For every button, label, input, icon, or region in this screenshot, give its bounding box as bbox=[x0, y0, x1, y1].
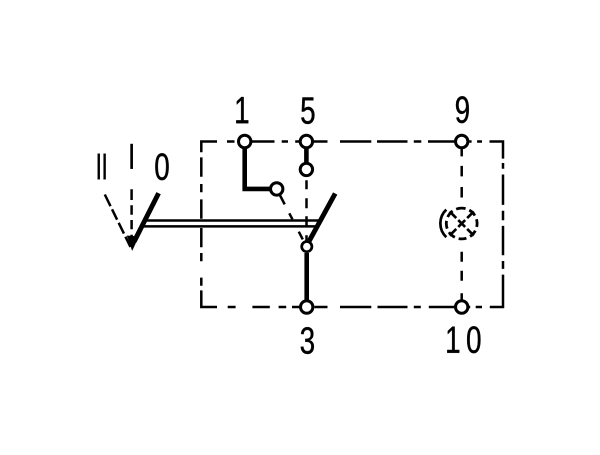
terminal 9 bbox=[456, 135, 468, 147]
enclosure top-right corner bbox=[469, 140, 482, 143]
wire pivot C to terminal 3 bbox=[304, 253, 309, 301]
label 10 digit 0 bbox=[467, 326, 480, 353]
lamp X stroke 1 bbox=[450, 211, 474, 235]
enclosure left edge bbox=[200, 157, 203, 285]
label position II bar 1 bbox=[98, 154, 100, 180]
lamp left arc bbox=[440, 210, 446, 238]
label position II bar 2 bbox=[104, 154, 106, 180]
terminal 10 bbox=[456, 301, 468, 313]
mechanical coupling bar upper line bbox=[146, 219, 319, 222]
wire dashed contact B down to pivot bbox=[280, 196, 303, 241]
wire terminal1 to contact B bbox=[245, 146, 271, 189]
lever arrowhead bbox=[127, 236, 139, 251]
lamp L (illumination) dashed circle bbox=[446, 208, 477, 239]
label 10 digit 1 bbox=[447, 327, 459, 353]
terminal 5 bbox=[300, 135, 312, 147]
switch lever left (position 0) bbox=[134, 193, 158, 241]
switch lever right (movable contact) bbox=[309, 194, 335, 241]
label 9 bbox=[456, 96, 469, 123]
terminal 3 bbox=[301, 301, 313, 313]
wire terminal5 to contact A bbox=[304, 146, 309, 164]
terminal 1 bbox=[239, 135, 251, 147]
enclosure right edge bbox=[502, 163, 505, 275]
enclosure bottom-left corner bbox=[201, 290, 217, 307]
contact node A bbox=[300, 163, 312, 175]
label 3 bbox=[301, 327, 314, 354]
label position I bbox=[131, 144, 133, 169]
position guide dashed I bbox=[130, 189, 133, 244]
label 1 bbox=[236, 97, 248, 123]
wire dashed contact A down to pivot bbox=[305, 180, 308, 240]
wire top edge terminal5 to terminal9 bbox=[314, 140, 454, 143]
enclosure bottom edge corner to terminal3 bbox=[228, 306, 300, 309]
wire top edge terminal1 to terminal5 bbox=[252, 140, 300, 143]
enclosure top edge segment (corner to terminal 1) bbox=[227, 140, 235, 143]
wire dashed lamp to terminal10 bbox=[460, 252, 463, 300]
enclosure bottom-right corner bbox=[490, 275, 503, 307]
enclosure bottom edge terminal10 to corner bbox=[468, 306, 482, 309]
lamp X stroke 2 bbox=[450, 211, 474, 235]
wire dashed terminal9 to lamp bbox=[460, 149, 463, 207]
contact node B bbox=[271, 183, 283, 195]
label 5 bbox=[301, 97, 314, 124]
enclosure bottom edge terminal3 to terminal10 bbox=[315, 306, 455, 309]
label position 0 bbox=[155, 153, 168, 180]
enclosure top-left corner bbox=[201, 142, 217, 153]
position guide dashed II bbox=[105, 195, 131, 248]
pivot node C bbox=[302, 242, 312, 252]
mechanical coupling bar lower line bbox=[143, 225, 316, 228]
